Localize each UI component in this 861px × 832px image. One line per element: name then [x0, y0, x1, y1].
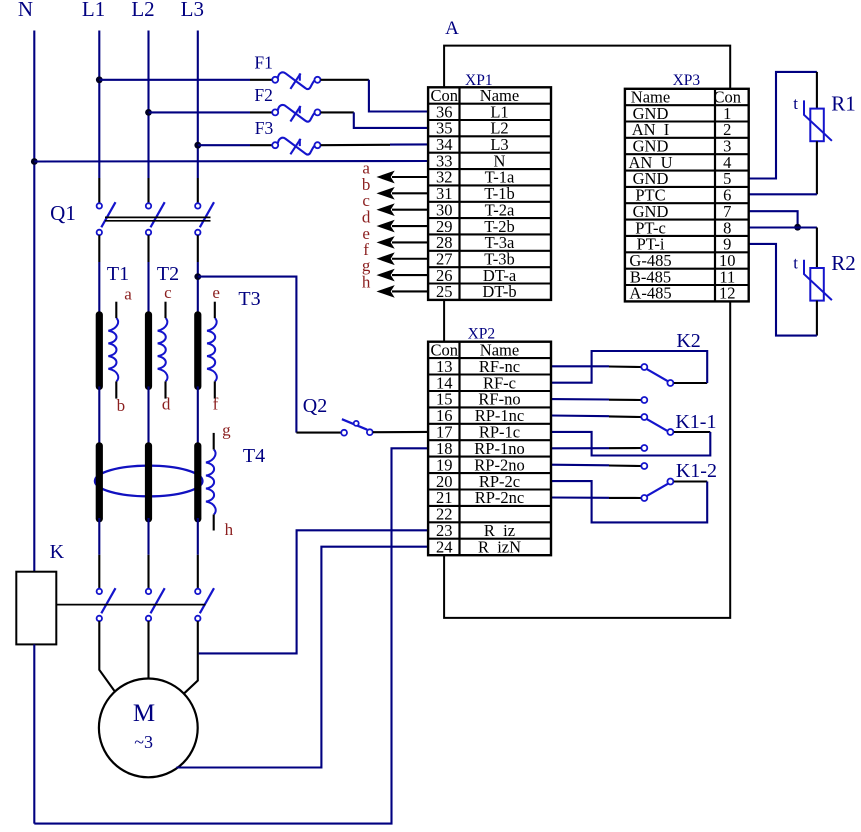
- svg-text:25: 25: [436, 282, 453, 301]
- label M: [133, 700, 155, 727]
- transformer T4 lead h: [213, 515, 215, 531]
- contactor K coil: [16, 572, 56, 645]
- wire bottom return to pin 18: [34, 448, 428, 823]
- pin 35 L2: [436, 119, 509, 138]
- junction L1-F1: [96, 76, 103, 83]
- label K: [50, 541, 65, 563]
- label T4: [243, 445, 265, 467]
- label Q2: [303, 395, 327, 417]
- relay contact K1-1: [641, 414, 673, 435]
- pin AN&#160;&#160;U 4: [629, 153, 732, 172]
- svg-text:t: t: [793, 94, 798, 113]
- signal label b: [362, 175, 371, 194]
- svg-text:Q1: Q1: [50, 201, 76, 225]
- label XP3: [673, 72, 701, 89]
- wire K1-1 common loop: [551, 432, 710, 456]
- transformer T3 secondary coil: [207, 318, 217, 381]
- label t R2: [793, 254, 798, 273]
- wire K pole2 to motor: [147, 621, 149, 678]
- svg-text:R izN: R izN: [478, 537, 521, 556]
- svg-text:F2: F2: [254, 85, 272, 105]
- transformer T4 bar phase 2: [145, 446, 152, 519]
- svg-text:12: 12: [719, 284, 736, 303]
- pin 15 RF-no: [436, 390, 521, 409]
- wire F1 to pin 36: [321, 80, 429, 112]
- svg-text:F3: F3: [255, 118, 274, 138]
- wire L3 T4 to K: [197, 518, 199, 589]
- pin 18 RP-1no: [436, 439, 525, 458]
- transformer T4 lead g: [213, 433, 215, 450]
- contactor K pole 1: [97, 588, 116, 621]
- transformer T3 lead e: [214, 302, 216, 318]
- svg-text:24: 24: [436, 537, 453, 556]
- contact terminal RP-1no: [641, 445, 647, 451]
- relay contact K2: [641, 364, 673, 386]
- wire L2 bus upper: [147, 31, 149, 204]
- net label L1: [82, 0, 105, 21]
- net label N: [18, 0, 33, 21]
- svg-text:M: M: [133, 700, 155, 727]
- label A: [445, 18, 459, 39]
- label T1: [107, 263, 129, 285]
- pin 31 T-1b: [436, 184, 515, 203]
- net label L2: [131, 0, 154, 21]
- pin 20 RP-2c: [436, 472, 520, 491]
- pin GND 7: [633, 202, 732, 221]
- label K1-1: [675, 411, 716, 433]
- wire N to pin 33: [34, 160, 428, 163]
- svg-text:L2: L2: [131, 0, 154, 21]
- svg-text:~3: ~3: [134, 732, 153, 752]
- wire N bus vertical: [33, 31, 35, 572]
- wire L3 branch to Q2: [198, 277, 297, 433]
- svg-text:A-485: A-485: [629, 284, 671, 303]
- transformer T4 secondary coil: [206, 450, 216, 515]
- pin 24 R&#160;&#160;izN: [436, 537, 521, 556]
- signal label f: [363, 240, 369, 259]
- pin 13 RF-nc: [436, 357, 520, 376]
- arrow pin 28 signal e: [378, 237, 428, 247]
- arrow pin 25 signal h: [378, 286, 428, 296]
- pin GND 3: [633, 137, 732, 156]
- svg-text:F1: F1: [254, 53, 272, 73]
- terminal label a: [124, 284, 132, 303]
- svg-text:g: g: [222, 421, 231, 440]
- wire R1 bottom to pin 6: [749, 141, 817, 194]
- transformer T2 primary bar: [145, 315, 152, 387]
- pin A-485 12: [629, 284, 735, 303]
- wire L2 Q1 to T2: [147, 235, 149, 316]
- signal label d: [362, 207, 371, 226]
- label T2: [157, 263, 179, 285]
- svg-text:RP-2nc: RP-2nc: [475, 488, 525, 507]
- connector XP3 header: [625, 87, 749, 301]
- wire Q2 to pin 17: [373, 431, 428, 433]
- svg-text:f: f: [213, 395, 219, 414]
- pin GND 1: [633, 104, 732, 123]
- pin 32 T-1a: [436, 168, 515, 187]
- wire L1 to F1: [99, 79, 272, 81]
- terminal label d: [162, 395, 171, 414]
- pin 16 RP-1nc: [436, 406, 524, 425]
- wire pin 23 to motor phase: [199, 530, 429, 653]
- wire pin 7 to junction: [749, 211, 798, 227]
- junction L3-F3: [194, 142, 201, 149]
- device A link XP1-XP2: [443, 300, 445, 342]
- breaker Q1 linkage: [105, 217, 211, 220]
- wire L3 bus upper: [197, 31, 199, 204]
- arrow pin 32 signal a: [378, 172, 428, 182]
- pin 28 T-3a: [436, 233, 515, 252]
- arrow pin 26 signal g: [378, 270, 428, 280]
- wire pin 5 to R1 top: [749, 72, 817, 179]
- wire pin 18 stub: [551, 447, 641, 449]
- svg-text:T1: T1: [107, 263, 129, 285]
- wire L1 T1 to T4: [98, 386, 100, 448]
- pin B-485 11: [630, 267, 735, 286]
- svg-text:K2: K2: [676, 330, 700, 352]
- pin 27 T-3b: [436, 249, 515, 268]
- pin 30 T-2a: [436, 200, 515, 219]
- junction N tap: [31, 158, 38, 165]
- label ~3: [134, 732, 153, 752]
- label R2: [831, 251, 856, 275]
- terminal label g: [222, 421, 231, 440]
- transformer T4 bar phase 3: [194, 446, 201, 519]
- svg-text:R2: R2: [831, 251, 856, 275]
- wire pin 8 to R2 top: [749, 228, 817, 269]
- contactor K pole 3: [195, 588, 214, 621]
- terminal label c: [164, 283, 172, 302]
- wire R2 bottom to pin 9: [749, 244, 817, 336]
- svg-text:N: N: [18, 0, 33, 21]
- junction L2-F2: [145, 109, 152, 116]
- signal label e: [362, 224, 370, 243]
- fuse F1: [272, 72, 320, 89]
- svg-text:K1-1: K1-1: [675, 411, 716, 433]
- label K1-2: [676, 460, 717, 482]
- wire L1 T4 to K: [98, 518, 100, 589]
- wire L1 bus upper: [98, 31, 100, 204]
- relay contact K1-2: [641, 479, 673, 502]
- pin 14 RF-c: [436, 373, 516, 392]
- terminal label f: [213, 395, 219, 414]
- wire K2 common loop: [551, 351, 707, 383]
- wire pin 19 stub: [551, 465, 641, 466]
- junction R2: [794, 224, 801, 231]
- breaker Q1 pole 3: [195, 202, 214, 235]
- switch Q2: [341, 419, 372, 435]
- transformer T4 bar phase 1: [96, 446, 103, 519]
- svg-text:K1-2: K1-2: [676, 460, 717, 482]
- breaker Q1 pole 2: [146, 202, 165, 235]
- wire L3 T3 to T4: [197, 386, 199, 448]
- pin PT-c 8: [635, 218, 731, 237]
- svg-text:XP1: XP1: [465, 72, 493, 89]
- thermistor R2: [804, 260, 832, 301]
- pin GND 5: [633, 169, 732, 188]
- svg-text:t: t: [793, 254, 798, 273]
- terminal label h: [225, 520, 234, 539]
- device A outline top: [444, 46, 730, 89]
- wire L3 Q1 to T3: [197, 235, 199, 316]
- terminal label e: [212, 283, 220, 302]
- wire K pole1 to motor: [99, 621, 116, 693]
- svg-text:e: e: [212, 283, 220, 302]
- pin 22: [436, 505, 453, 524]
- transformer T2 lead c: [164, 302, 166, 318]
- wire L3 to F3: [198, 144, 272, 146]
- connector XP1 header: [428, 86, 551, 300]
- transformer T3 lead f: [214, 381, 216, 398]
- label K2: [676, 330, 700, 352]
- svg-text:L1: L1: [82, 0, 105, 21]
- junction L3 to Q2 branch: [194, 273, 201, 280]
- signal label h: [362, 272, 371, 291]
- net label L3: [181, 0, 204, 21]
- wire Q2 left lead: [296, 432, 341, 434]
- wire pin 16 to K1-1: [551, 416, 641, 418]
- contact terminal RF-no: [641, 397, 647, 403]
- pin PT-i 9: [637, 235, 732, 254]
- label Q1: [50, 201, 76, 225]
- connector XP2 header: [428, 340, 551, 555]
- wire L2 T2 to T4: [147, 386, 149, 448]
- svg-text:Q2: Q2: [303, 395, 327, 417]
- wire pin 24 to motor body: [176, 547, 428, 768]
- pin 23 R&#160;&#160;iz: [436, 521, 515, 540]
- pin 19 RP-2no: [436, 455, 525, 474]
- svg-text:c: c: [164, 283, 172, 302]
- wire L1 Q1 to T1: [98, 235, 100, 316]
- terminal label b: [117, 396, 126, 415]
- transformer T4 core ellipse: [95, 466, 203, 497]
- wire L2 to F2: [149, 111, 273, 113]
- motor M: [99, 679, 198, 778]
- svg-text:d: d: [162, 395, 171, 414]
- svg-text:T2: T2: [157, 263, 179, 285]
- wire K1-2 common loop: [551, 481, 707, 522]
- wire K pole3 to motor: [184, 621, 198, 694]
- wire K coil to bottom: [33, 644, 35, 823]
- svg-text:XP3: XP3: [673, 72, 701, 89]
- svg-text:A: A: [445, 18, 459, 39]
- label XP2: [468, 326, 496, 343]
- signal label c: [362, 191, 370, 210]
- arrow pin 27 signal f: [378, 254, 428, 264]
- thermistor R1: [804, 100, 832, 141]
- pin 26 DT-a: [436, 266, 517, 285]
- transformer T1 lead a: [115, 302, 117, 318]
- label XP1: [465, 72, 493, 89]
- wire pin 21 to K1-2: [551, 496, 641, 499]
- svg-text:R1: R1: [831, 92, 856, 116]
- contactor K pole 2: [146, 588, 165, 621]
- fuse F3: [272, 138, 320, 155]
- pin 33 N: [436, 151, 506, 170]
- signal label g: [362, 256, 371, 275]
- pin AN&#160;&#160;I 2: [632, 120, 732, 139]
- svg-text:T4: T4: [243, 445, 265, 467]
- contact terminal RP-2no: [641, 463, 647, 469]
- pin 34 L3: [436, 135, 509, 154]
- svg-text:b: b: [117, 396, 126, 415]
- pin G-485 10: [629, 251, 735, 270]
- label R1: [831, 92, 856, 116]
- pin 17 RP-1c: [436, 423, 520, 442]
- pin PTC 6: [635, 186, 731, 205]
- transformer T3 primary bar: [194, 315, 201, 387]
- wire L2 T4 to K: [147, 518, 149, 589]
- svg-text:XP2: XP2: [468, 326, 496, 343]
- svg-text:K: K: [50, 541, 65, 563]
- pin 21 RP-2nc: [436, 488, 524, 507]
- svg-text:L3: L3: [181, 0, 204, 21]
- signal label a: [362, 158, 370, 177]
- transformer T2 secondary coil: [158, 318, 168, 381]
- arrow pin 29 signal d: [378, 221, 428, 231]
- wire pin 13 to K2: [551, 365, 641, 368]
- fuse F2: [272, 105, 320, 122]
- svg-text:T3: T3: [238, 288, 260, 310]
- svg-text:DT-b: DT-b: [482, 282, 516, 301]
- wire pin 15 stub: [551, 398, 641, 401]
- pin 25 DT-b: [436, 282, 517, 301]
- svg-text:a: a: [124, 284, 132, 303]
- label t R1: [793, 94, 798, 113]
- transformer T1 primary bar: [96, 315, 103, 387]
- transformer T1 secondary coil: [108, 318, 118, 381]
- arrow pin 30 signal c: [378, 205, 428, 215]
- breaker Q1 pole 1: [97, 202, 116, 235]
- label F2: [254, 85, 272, 105]
- label F1: [254, 53, 272, 73]
- contactor K linkage: [56, 604, 205, 606]
- svg-text:h: h: [225, 520, 234, 539]
- wire F2 to pin 35: [321, 112, 429, 128]
- label F3: [255, 118, 274, 138]
- pin 36 L1: [436, 102, 509, 121]
- label T3: [238, 288, 260, 310]
- transformer T1 lead b: [115, 381, 117, 398]
- pin 29 T-2b: [436, 217, 515, 236]
- wire F3 to pin 34: [321, 143, 429, 146]
- arrow pin 31 signal b: [378, 188, 428, 198]
- transformer T2 lead d: [164, 381, 166, 398]
- device A outline bottom: [444, 301, 730, 618]
- svg-text:h: h: [362, 272, 371, 291]
